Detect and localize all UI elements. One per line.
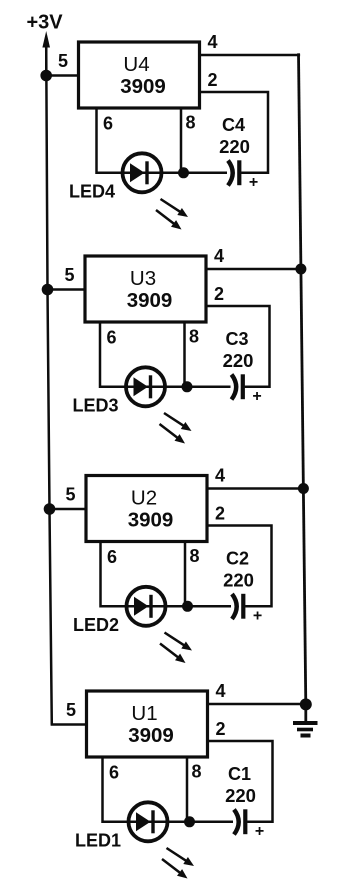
junction: ground bus at U3 pin 4 <box>295 264 306 275</box>
svg-text:3909: 3909 <box>128 724 174 747</box>
junction: pin 8 / LED2 cathode / C2 node <box>182 601 193 612</box>
pin 5 label (U3) <box>64 265 74 285</box>
pin 2 label (U4) <box>207 70 217 90</box>
wire: +3V left supply bus <box>46 44 52 725</box>
pin 6 label (U4) <box>103 114 113 134</box>
junction: ground bus at U1 pin 4 <box>300 698 312 710</box>
svg-text:8: 8 <box>191 762 201 782</box>
wire: pin 8 of U2 to LED2 cathode node <box>184 542 187 607</box>
svg-text:U1: U1 <box>131 702 157 725</box>
svg-text:6: 6 <box>103 114 113 134</box>
capacitor C4 (curved negative plate) <box>228 161 233 186</box>
svg-text:4: 4 <box>207 32 217 52</box>
pin 2 label (U3) <box>214 284 224 304</box>
pin 6 label (U1) <box>109 763 119 783</box>
IC U1 value label 3909 <box>128 724 174 747</box>
svg-text:220: 220 <box>219 136 250 157</box>
LED LED2 <box>127 587 166 626</box>
svg-text:5: 5 <box>58 51 68 71</box>
C2 polarity mark + <box>253 608 262 625</box>
svg-text:4: 4 <box>215 466 225 486</box>
wire: LED3 cathode to C3 negative plate <box>146 386 231 389</box>
pin 4 label (U4) <box>207 32 217 52</box>
svg-text:C3: C3 <box>225 329 248 349</box>
ground <box>293 704 318 735</box>
IC U4 (3909 flasher) <box>79 42 200 108</box>
C4 reference label <box>222 115 245 135</box>
capacitor C3 (curved negative plate) <box>232 375 237 400</box>
junction: +3V bus at U3 pin 5 <box>42 284 54 296</box>
wire: LED4 cathode to C4 negative plate <box>142 172 227 175</box>
svg-text:8: 8 <box>189 546 199 566</box>
pin 8 label (U1) <box>191 762 201 782</box>
wire: right ground bus <box>299 53 306 704</box>
C4 polarity mark + <box>249 174 258 191</box>
wire: pin 2 of U2 to C2 positive plate <box>207 526 272 607</box>
svg-text:+3V: +3V <box>27 12 64 34</box>
pin 4 label (U1) <box>215 681 225 701</box>
junction: pin 8 / LED1 cathode / C1 node <box>184 816 195 827</box>
svg-text:6: 6 <box>106 328 116 348</box>
pin 6 label (U3) <box>106 328 116 348</box>
svg-text:220: 220 <box>225 785 256 806</box>
wire: pin 8 of U4 to LED4 cathode node <box>180 108 183 173</box>
svg-text:220: 220 <box>223 350 254 371</box>
pin 8 label (U4) <box>185 113 195 133</box>
svg-text:U2: U2 <box>131 487 157 510</box>
junction: pin 8 / LED3 cathode / C3 node <box>182 381 193 392</box>
wire: pin 2 of U4 to C4 positive plate <box>200 92 269 173</box>
wire: +3V bus to pin 5 of U2 <box>48 508 86 511</box>
svg-text:3909: 3909 <box>128 509 174 532</box>
pin 8 label (U2) <box>189 546 199 566</box>
capacitor C1 (curved negative plate) <box>234 810 239 835</box>
C1 reference label <box>228 764 251 784</box>
C3 value label 220 <box>223 350 254 371</box>
svg-text:5: 5 <box>66 700 76 720</box>
svg-text:8: 8 <box>185 113 195 133</box>
IC U1 reference label <box>131 702 157 725</box>
IC U2 (3909 flasher) <box>86 476 207 542</box>
capacitor C4 (straight positive plate) <box>237 160 241 185</box>
LED3 light emission arrows <box>160 413 192 444</box>
capacitor C2 (straight positive plate) <box>241 594 245 619</box>
wire: pin 2 of U3 to C3 positive plate <box>206 306 270 387</box>
IC U3 (3909 flasher) <box>85 256 206 322</box>
junction: +3V bus at U4 pin 5 <box>40 70 52 82</box>
junction: +3V bus at U2 pin 5 <box>44 503 56 515</box>
wire: pin 6 of U2 to LED2 anode <box>101 542 147 607</box>
IC U4 reference label <box>123 53 149 76</box>
IC U4 value label 3909 <box>120 75 166 98</box>
svg-text:2: 2 <box>215 719 225 739</box>
IC U1 (3909 flasher) <box>87 691 208 757</box>
pin 2 label (U1) <box>215 719 225 739</box>
LED LED1 <box>129 802 168 841</box>
LED3 label <box>73 396 119 416</box>
svg-text:5: 5 <box>64 265 74 285</box>
C4 value label 220 <box>219 136 250 157</box>
svg-text:U3: U3 <box>130 267 156 290</box>
junction: pin 8 / LED4 cathode / C4 node <box>178 167 189 178</box>
svg-text:2: 2 <box>215 504 225 524</box>
C1 value label 220 <box>225 785 256 806</box>
LED2 label <box>73 615 119 635</box>
IC U3 value label 3909 <box>127 289 173 312</box>
C2 reference label <box>226 549 249 569</box>
svg-text:6: 6 <box>109 763 119 783</box>
svg-text:2: 2 <box>214 284 224 304</box>
wire: pin 4 of U2 to ground bus <box>207 487 305 490</box>
svg-text:220: 220 <box>223 570 254 591</box>
wire: pin 6 of U4 to LED4 anode <box>97 108 143 173</box>
wire: LED1 cathode to C1 negative plate <box>148 821 233 824</box>
pin 5 label (U2) <box>65 485 75 505</box>
svg-text:8: 8 <box>189 327 199 347</box>
pin 5 label (U1) <box>66 700 76 720</box>
power label +3V <box>27 12 64 34</box>
wire: +3V bus to pin 5 of U3 <box>46 288 85 291</box>
+3V supply arrow <box>42 31 50 76</box>
junction: ground bus at U2 pin 4 <box>298 483 309 494</box>
wire: pin 4 of U3 to ground bus <box>206 268 303 271</box>
LED1 light emission arrows <box>162 848 194 879</box>
svg-text:C2: C2 <box>226 549 249 569</box>
svg-text:3909: 3909 <box>127 289 173 312</box>
svg-text:+: + <box>255 823 264 840</box>
svg-text:+: + <box>253 608 262 625</box>
svg-text:LED2: LED2 <box>73 615 119 635</box>
svg-text:3909: 3909 <box>120 75 166 98</box>
svg-text:2: 2 <box>207 70 217 90</box>
pin 6 label (U2) <box>107 547 117 567</box>
LED LED3 <box>126 367 165 406</box>
wire: pin 8 of U1 to LED1 cathode node <box>186 757 189 822</box>
wire: pin 6 of U1 to LED1 anode <box>103 757 149 822</box>
wire: pin 4 of U4 to ground bus <box>200 54 301 57</box>
svg-text:LED1: LED1 <box>75 831 121 851</box>
C1 polarity mark + <box>255 823 264 840</box>
LED LED4 <box>123 153 162 192</box>
capacitor C2 (curved negative plate) <box>232 594 237 619</box>
wire: +3V bus to pin 5 of U4 <box>45 74 78 77</box>
wire: pin 6 of U3 to LED3 anode <box>100 322 146 387</box>
svg-text:LED4: LED4 <box>69 182 115 202</box>
svg-text:4: 4 <box>214 246 224 266</box>
pin 8 label (U3) <box>189 327 199 347</box>
svg-text:5: 5 <box>65 485 75 505</box>
C2 value label 220 <box>223 570 254 591</box>
C3 polarity mark + <box>252 388 261 405</box>
wire: pin 8 of U3 to LED3 cathode node <box>183 322 186 387</box>
svg-text:C4: C4 <box>222 115 245 135</box>
svg-text:6: 6 <box>107 547 117 567</box>
wire: pin 2 of U1 to C1 positive plate <box>208 741 273 822</box>
svg-text:+: + <box>249 174 258 191</box>
LED1 label <box>75 831 121 851</box>
wire: LED2 cathode to C2 negative plate <box>146 605 231 608</box>
pin 2 label (U2) <box>215 504 225 524</box>
C3 reference label <box>225 329 248 349</box>
LED2 light emission arrows <box>160 633 192 664</box>
wire: pin 4 of U1 to ground bus <box>208 703 308 706</box>
svg-text:LED3: LED3 <box>73 396 119 416</box>
IC U3 reference label <box>130 267 156 290</box>
capacitor C1 (straight positive plate) <box>243 809 247 834</box>
pin 5 label (U4) <box>58 51 68 71</box>
pin 4 label (U2) <box>215 466 225 486</box>
svg-text:U4: U4 <box>123 53 149 76</box>
svg-text:+: + <box>252 388 261 405</box>
wire: +3V bus to pin 5 of U1 <box>51 723 87 726</box>
svg-text:4: 4 <box>215 681 225 701</box>
pin 4 label (U3) <box>214 246 224 266</box>
IC U2 reference label <box>131 487 157 510</box>
capacitor C3 (straight positive plate) <box>241 374 245 399</box>
LED4 light emission arrows <box>156 199 188 230</box>
LED4 label <box>69 182 115 202</box>
svg-text:C1: C1 <box>228 764 251 784</box>
IC U2 value label 3909 <box>128 509 174 532</box>
